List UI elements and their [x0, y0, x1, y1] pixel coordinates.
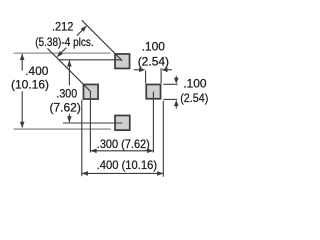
svg-text:(7.62): (7.62)	[50, 101, 81, 115]
dimension .400 left vertical line upper stub	[21, 54, 23, 71]
right .100 dimension down arrow	[175, 76, 177, 79]
wire: pad P1 horizontal centerline extended left	[59, 59, 122, 61]
extension line right from pad P3 top edge (right .100 dim)	[163, 83, 177, 85]
svg-text:(10.16): (10.16)	[11, 77, 49, 91]
extension line up from pad P3 right edge (top .100 dim)	[160, 68, 162, 83]
label (2.54) top	[136, 54, 169, 68]
label .400 (10.16) bottom	[95, 158, 158, 172]
label (5.38)-4 plcs.	[34, 35, 95, 49]
arrowhead .400 left up	[20, 54, 25, 60]
extension line down from pad P3 center (bottom .300 dim)	[152, 92, 154, 153]
pad P1 (top)	[115, 54, 130, 68]
label .400 left	[24, 64, 50, 78]
svg-text:.300: .300	[56, 87, 77, 101]
label .300 (7.62) bottom	[96, 137, 151, 151]
label .100 top	[140, 39, 165, 53]
svg-text:.300 (7.62): .300 (7.62)	[97, 137, 150, 151]
dimension .400 left vertical line lower stub	[21, 91, 23, 127]
extension line down from pad P3 right edge (bottom .400 dim)	[162, 101, 164, 177]
label (7.62) middle	[48, 101, 81, 115]
arrowhead .400 left down	[20, 122, 25, 128]
wire: pad P4 horizontal centerline extended left	[63, 122, 122, 124]
arrowhead .300 middle up	[67, 60, 72, 66]
svg-text:.100: .100	[142, 39, 166, 53]
svg-text:(2.54): (2.54)	[180, 91, 208, 105]
dimension .300 middle vertical upper stub	[68, 60, 70, 85]
pad P3 (right)	[146, 84, 160, 98]
gray reference line top (pad P1 top edge extended left)	[14, 52, 111, 54]
svg-text:.100: .100	[183, 77, 207, 91]
bottom .400 dimension line with outward arrowheads	[82, 172, 164, 174]
extension line down from pad P2 center (bottom .300 dim)	[89, 92, 91, 153]
arrowhead .300 middle down	[67, 116, 72, 122]
right .100 dimension up arrow	[175, 106, 177, 109]
svg-text:.400: .400	[25, 64, 49, 78]
svg-text:(2.54): (2.54)	[138, 54, 169, 68]
label (10.16) left	[10, 77, 50, 91]
top .100 dimension right arrow (points left)	[168, 69, 172, 71]
extension line down from pad P2 left edge (bottom .400 dim)	[81, 100, 83, 176]
top .100 dimension left arrow (points right)	[134, 69, 140, 71]
gray reference line bottom (pad P4 bottom edge extended left)	[14, 128, 112, 130]
svg-text:.400 (10.16): .400 (10.16)	[97, 158, 158, 172]
bottom .300 dimension line with outward arrowheads	[90, 150, 153, 152]
45-degree extension line through pad P1 corner to its center	[82, 20, 123, 61]
.212 diagonal dimension upper arrow (points up-right at pad P1 45-deg line)	[77, 30, 83, 36]
pad P2 (left)	[83, 84, 98, 99]
label .100 right	[182, 77, 207, 91]
label .300 middle	[55, 87, 78, 101]
svg-text:.212: .212	[52, 20, 74, 34]
pad P4 (bottom)	[115, 115, 130, 130]
label (2.54) right	[179, 91, 210, 105]
extension line up from pad P3 left edge (top .100 dim)	[145, 71, 147, 84]
svg-text:(5.38)-4 plcs.: (5.38)-4 plcs.	[35, 35, 94, 49]
dimension .300 middle vertical lower stub	[68, 113, 70, 123]
.212 diagonal dimension lower arrow (points down-left at pad P2 45-deg line)	[61, 48, 67, 54]
extension line right from pad P3 bottom edge (right .100 dim)	[163, 98, 177, 100]
45-degree extension line through pad P2 corner to its center	[46, 47, 91, 92]
label .212	[51, 20, 75, 34]
